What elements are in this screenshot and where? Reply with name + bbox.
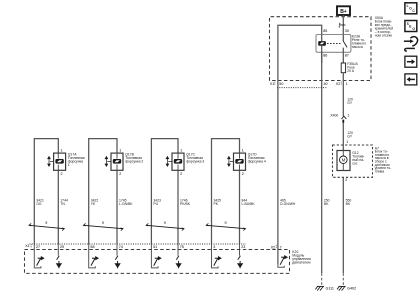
injector 1 valve symbol <box>55 159 63 164</box>
svg-text:50: 50 <box>279 82 283 86</box>
ECM internal connection arrow for pin 29 <box>57 244 59 256</box>
twisted pair symbol circuit 1 <box>29 223 64 230</box>
svg-text:насоса: насоса <box>352 45 363 49</box>
svg-text:1: 1 <box>346 82 348 86</box>
fuel pump motor M circle <box>340 156 348 164</box>
injector 3 spray double-arrow <box>166 157 172 167</box>
fuel pump G12 box <box>337 151 350 171</box>
svg-text:87: 87 <box>345 54 349 58</box>
svg-text:G402: G402 <box>347 286 356 290</box>
svg-text:форсунка 3: форсунка 3 <box>186 159 204 163</box>
svg-text:BK: BK <box>324 202 329 206</box>
svg-text:3: 3 <box>213 245 215 249</box>
svg-text:плива: плива <box>375 169 384 173</box>
svg-text:58: 58 <box>90 245 94 249</box>
wire relay 86 down (pin 40) <box>321 52 323 273</box>
injector 4 spray double-arrow <box>228 157 234 167</box>
twisted pair symbol circuit 4 <box>206 223 245 230</box>
dashed wire tail to G111 <box>321 273 323 285</box>
svg-text:86: 86 <box>323 54 327 58</box>
icon previous arrow button <box>405 74 417 85</box>
svg-text:GY: GY <box>347 135 353 139</box>
inline connection tick on B+ wire <box>339 23 345 27</box>
ECM internal connection arrow for pin 23 <box>239 244 241 256</box>
svg-text:2: 2 <box>119 172 121 176</box>
ECM fuel pump relay driver <box>278 264 284 267</box>
svg-text:1: 1 <box>347 114 349 118</box>
svg-text:2: 2 <box>345 178 347 182</box>
svg-text:29: 29 <box>60 245 64 249</box>
svg-text:X400: X400 <box>330 114 338 118</box>
fuse F35UA <box>341 63 345 73</box>
ECM low-side driver for injector 2 <box>89 244 96 268</box>
ECM K20 dashed box <box>25 250 290 274</box>
svg-text:двигателем: двигателем <box>292 260 311 264</box>
ECM low-side driver for injector 3 <box>151 244 158 268</box>
svg-text:9: 9 <box>102 221 104 225</box>
ground G111 <box>315 286 324 290</box>
svg-text:GY: GY <box>347 101 353 105</box>
svg-text:G111: G111 <box>326 286 334 290</box>
wire injector 2 feed top horizontal <box>89 139 117 244</box>
svg-text:M: M <box>342 158 346 163</box>
wire injector 4 return <box>239 170 241 244</box>
wire X400 to pump <box>342 123 344 151</box>
svg-text:ном отсеке: ном отсеке <box>375 34 392 38</box>
injector 2 spray double-arrow <box>105 157 111 167</box>
wire injector 2 return <box>116 170 118 244</box>
svg-text:L-GN/BK: L-GN/BK <box>119 202 133 206</box>
svg-text:сос: сос <box>352 162 358 166</box>
wire injector 4 feed top horizontal <box>212 139 240 244</box>
svg-text:PK: PK <box>214 202 219 206</box>
fuel injector Q17D box <box>234 153 246 170</box>
svg-text:L-BU/BK: L-BU/BK <box>242 202 256 206</box>
relay coil-contact dashed link <box>327 42 341 44</box>
twisted pair symbol circuit 2 <box>83 223 123 230</box>
svg-text:BK: BK <box>346 202 351 206</box>
fuel injector Q17A box <box>54 153 66 170</box>
injector 3 valve symbol <box>174 159 182 164</box>
wire injector 3 return <box>177 170 179 244</box>
svg-text:B+: B+ <box>340 9 347 15</box>
svg-text:2: 2 <box>242 172 244 176</box>
dashed wire tail to G402 <box>342 273 344 285</box>
relay coil symbol <box>318 41 326 46</box>
svg-text:75: 75 <box>180 245 184 249</box>
twisted pair symbol circuit 3 <box>146 223 184 230</box>
svg-text:форсунка: форсунка <box>68 159 83 163</box>
svg-text:40: 40 <box>324 82 328 86</box>
connector X1 dotted strip <box>30 243 247 245</box>
svg-text:1: 1 <box>180 148 182 152</box>
wire 550 BK <box>342 177 344 273</box>
svg-text:OG: OG <box>36 202 42 206</box>
fuel injector Q17C box <box>172 153 184 170</box>
svg-text:X2: X2 <box>271 245 276 249</box>
injector 4 valve symbol <box>235 159 243 164</box>
svg-text:X1: X1 <box>25 244 30 248</box>
svg-text:D-GN/WH: D-GN/WH <box>280 202 296 206</box>
svg-text:1: 1 <box>119 148 121 152</box>
relay contact blade <box>342 35 344 42</box>
svg-text:форсунка 4: форсунка 4 <box>248 159 266 163</box>
ECM low-side driver for injector 1 <box>34 244 41 268</box>
injector 2 valve symbol <box>113 159 121 164</box>
ECM low-side driver for injector 4 <box>212 244 219 268</box>
wire 465 D-GN/WH <box>277 81 279 265</box>
svg-text:51: 51 <box>153 245 157 249</box>
fuel injector Q17B box <box>111 153 123 170</box>
svg-text:1: 1 <box>61 148 63 152</box>
wire injector 1 feed top horizontal <box>34 139 58 244</box>
icon circuit loop arrows <box>404 37 418 51</box>
fuel pump module A7 dashed box <box>333 145 373 177</box>
icon next arrow button <box>405 56 417 67</box>
svg-text:1: 1 <box>346 140 348 144</box>
svg-text:X1: X1 <box>270 82 275 86</box>
relay K23A box <box>316 35 351 53</box>
svg-text:30: 30 <box>345 29 349 33</box>
ECM internal connection arrow for pin 75 <box>177 244 179 256</box>
injector 1 spray double-arrow <box>48 157 54 167</box>
svg-text:74: 74 <box>119 245 123 249</box>
wire B+ to relay pin 30 <box>342 15 344 35</box>
svg-text:85: 85 <box>323 29 327 33</box>
wire fuse to X2 1 <box>342 73 344 117</box>
relay coil wire through box <box>321 35 323 42</box>
connector dotted line below X50A <box>277 87 328 89</box>
svg-text:20 A: 20 A <box>347 69 355 73</box>
svg-text:PK/BK: PK/BK <box>180 202 191 206</box>
svg-text:9: 9 <box>45 221 47 225</box>
battery positive voltage B+ box <box>337 6 350 15</box>
ground G402 <box>337 286 346 290</box>
svg-text:9: 9 <box>225 221 227 225</box>
svg-text:форсунка 2: форсунка 2 <box>125 159 143 163</box>
svg-text:TN: TN <box>60 202 65 206</box>
svg-text:YE: YE <box>91 202 96 206</box>
svg-text:X2: X2 <box>336 82 341 86</box>
svg-text:PU: PU <box>153 202 158 206</box>
svg-text:7: 7 <box>280 245 282 249</box>
svg-text:23: 23 <box>241 245 245 249</box>
icon SI button <box>405 21 417 32</box>
svg-text:1: 1 <box>242 148 244 152</box>
svg-text:O: O <box>412 27 415 31</box>
icon LOC button <box>405 3 417 14</box>
svg-text:9: 9 <box>164 221 166 225</box>
wire relay coil feed (corner to pin 85) <box>278 25 322 80</box>
ECM internal connection arrow for pin 74 <box>116 244 118 256</box>
svg-text:1: 1 <box>68 163 70 167</box>
svg-text:2: 2 <box>61 172 63 176</box>
svg-text:2: 2 <box>180 172 182 176</box>
svg-text:27: 27 <box>36 245 40 249</box>
X50A fuse block dashed box <box>270 17 372 81</box>
wire injector 3 feed top horizontal <box>151 139 178 244</box>
wire injector 1 return <box>57 170 59 244</box>
